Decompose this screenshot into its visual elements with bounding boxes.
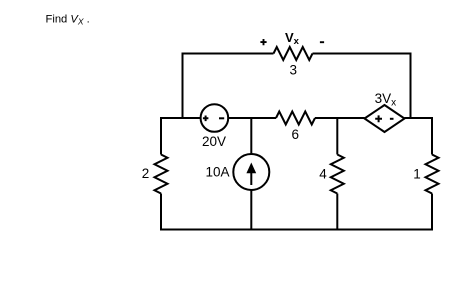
wire right branch upper — [431, 118, 433, 155]
svg-text:Vx: Vx — [285, 30, 300, 47]
svg-text:6: 6 — [291, 127, 299, 142]
svg-text:2: 2 — [142, 166, 150, 181]
wire 10A branch lower — [250, 190, 252, 231]
resistor R6 zigzag — [276, 112, 315, 125]
arrow of current source — [250, 171, 252, 185]
svg-text:Find VX .: Find VX . — [46, 14, 90, 27]
svg-text:4: 4 — [319, 167, 327, 182]
plus sign inside V1 — [203, 116, 209, 122]
dependent source U1 diamond — [365, 105, 405, 132]
wire right branch lower — [431, 194, 433, 231]
wire top left segment — [182, 53, 274, 55]
svg-text:20V: 20V — [202, 134, 226, 149]
svg-text:3Vx: 3Vx — [375, 91, 397, 109]
wire left branch lower — [160, 194, 162, 231]
wire R4 branch lower — [336, 194, 338, 231]
wire left vertical of top loop — [182, 54, 184, 119]
wire top right segment — [313, 53, 411, 55]
wire R4 branch upper — [336, 118, 338, 155]
resistor R3 zigzag — [274, 47, 313, 60]
resistor R2 zigzag — [155, 155, 168, 194]
plus label at R3 — [260, 39, 266, 45]
wire 10A branch upper — [250, 118, 252, 154]
minus sign inside diamond — [390, 118, 394, 120]
wire bottom — [160, 229, 433, 231]
resistor R4 zigzag — [331, 155, 344, 194]
current source I1 circle — [233, 154, 269, 190]
plus sign inside diamond — [375, 115, 382, 122]
wire middle right segment — [405, 117, 434, 119]
minus label at R3 — [320, 41, 324, 43]
wire right vertical of top loop — [410, 53, 412, 119]
wire middle segment b — [315, 117, 365, 119]
wire middle segment a — [228, 117, 276, 119]
voltage source V1 circle — [201, 104, 229, 132]
wire left branch upper — [160, 117, 162, 155]
resistor R1 zigzag — [426, 155, 439, 194]
wire middle left segment — [161, 117, 201, 119]
svg-text:10A: 10A — [205, 165, 229, 180]
arrowhead of current source — [246, 163, 256, 174]
minus sign inside V1 — [219, 117, 224, 119]
svg-text:1: 1 — [413, 167, 421, 182]
svg-text:3: 3 — [289, 62, 297, 77]
